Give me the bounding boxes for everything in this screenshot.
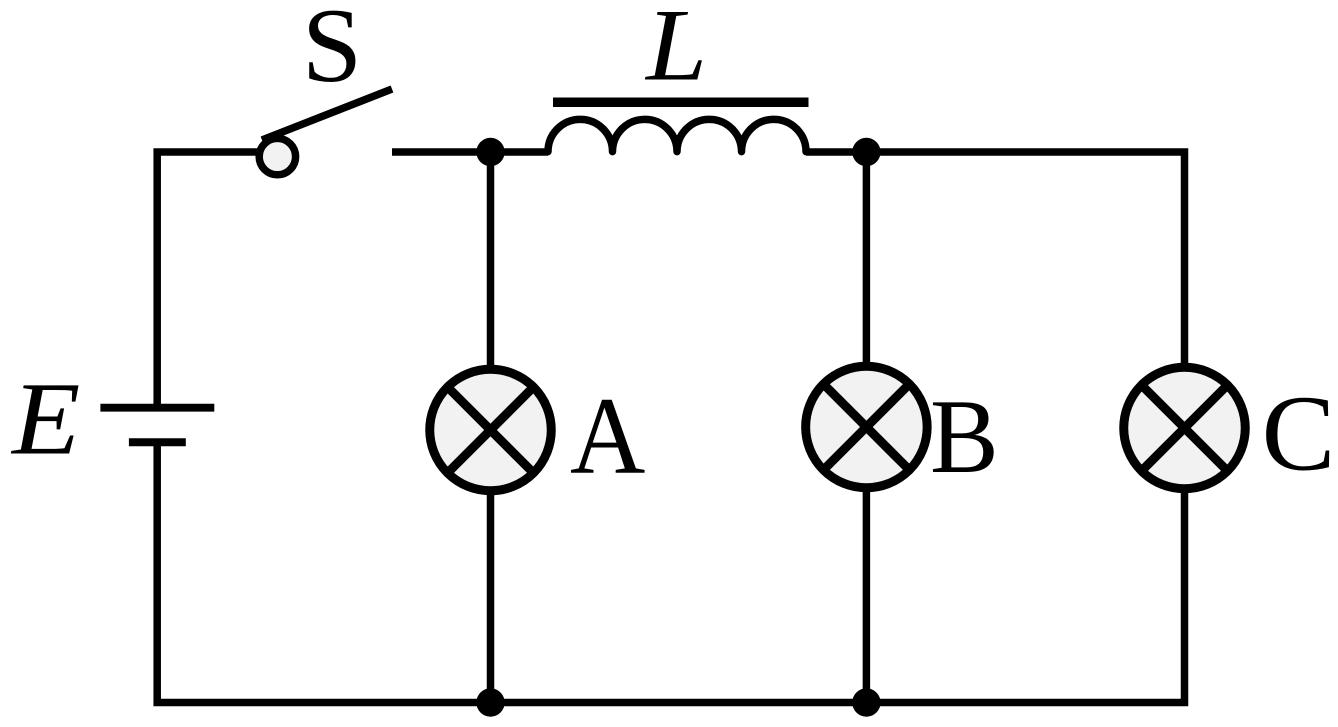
svg-text:L: L: [644, 0, 707, 103]
switch S circle terminal: [259, 138, 295, 174]
wire: switch right terminal to node A: [392, 148, 548, 156]
svg-text:B: B: [930, 378, 999, 496]
inductor L core bar: [553, 98, 809, 108]
svg-text:E: E: [10, 362, 80, 477]
battery E short plate: [129, 438, 186, 446]
lamp A: [430, 369, 552, 491]
wire: branch A lower: [487, 492, 495, 703]
lamp C: [1124, 367, 1246, 489]
node dot top B: [852, 138, 880, 166]
wire: battery down, bottom rail, up right side: [157, 152, 1184, 703]
wire: branch B upper: [863, 152, 871, 365]
switch S lever: [262, 89, 392, 140]
wire: branch B lower: [863, 489, 871, 703]
wire: branch A upper: [487, 152, 495, 368]
lamp B: [806, 366, 928, 488]
battery E long plate: [100, 404, 214, 412]
svg-text:C: C: [1262, 372, 1336, 493]
svg-text:S: S: [302, 0, 362, 105]
wire: top-left from switch to left corner, down to battery: [157, 152, 262, 404]
node dot top A: [476, 138, 504, 166]
svg-text:A: A: [570, 375, 645, 497]
node dot bottom B: [852, 688, 880, 716]
inductor L coil: [548, 119, 806, 151]
node dot bottom A: [476, 688, 504, 716]
